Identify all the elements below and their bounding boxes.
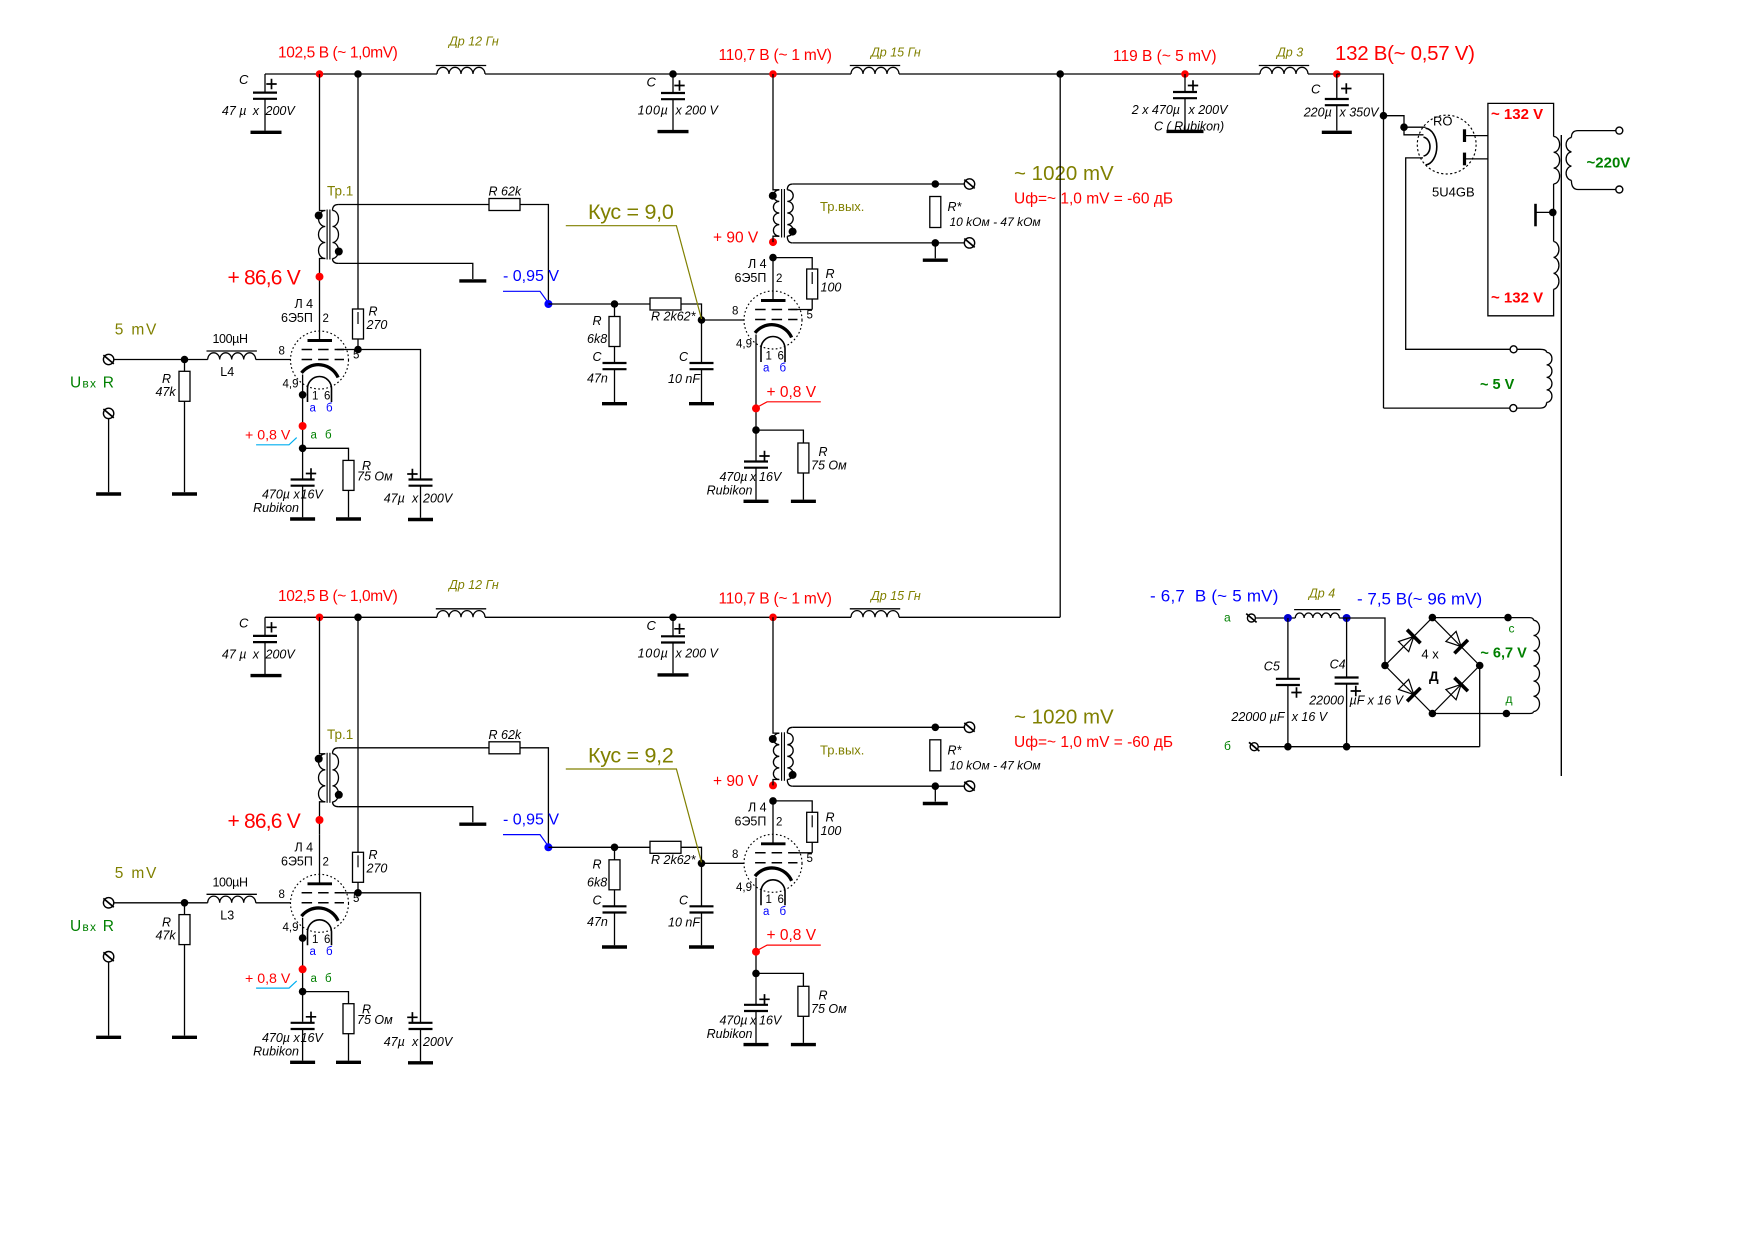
resistor R* load ch2 [930,740,941,771]
wire bridge right vertex to negative bus [1479,666,1481,747]
HV secondary winding box [1488,103,1554,315]
svg-text:б: б [326,403,333,415]
svg-text:~ 1020 mV: ~ 1020 mV [1014,162,1114,185]
transformer Tr.1 ch1 primary [320,74,326,211]
svg-text:R*: R* [948,200,963,214]
svg-text:+ 0,8 V: + 0,8 V [245,971,291,987]
svg-text:4,9: 4,9 [283,379,299,391]
node bus cap 100u ch1 [669,70,677,78]
svg-text:47k: 47k [156,385,177,399]
node R* top ch1 [932,180,940,188]
svg-text:1: 1 [312,934,318,946]
svg-text:x 200 V: x 200 V [675,647,720,661]
wire cathode to R75 V2 ch1 [756,430,803,443]
node grid V2 ch2 [698,860,706,868]
node R6k8 tap ch1 [611,300,619,308]
svg-text:Др 3: Др 3 [1275,46,1303,60]
svg-text:8: 8 [732,306,738,318]
svg-text:~ 1020 mV: ~ 1020 mV [1014,705,1114,728]
svg-text:Rubikon: Rubikon [253,501,299,515]
svg-text:б: б [780,906,787,918]
HV secondary winding lower half ~132V [1554,242,1559,290]
svg-text:470µ: 470µ [262,1031,290,1045]
svg-text:6k8: 6k8 [587,332,607,346]
svg-text:75 Ом: 75 Ом [357,1013,393,1027]
svg-text:220µ: 220µ [1303,106,1332,120]
rectifier RO filament arcs [1424,128,1437,165]
svg-text:б: б [325,973,332,985]
svg-text:x 200V: x 200V [1188,103,1230,117]
node pin 4,9 ch2 [299,934,307,942]
ground R75 V1 ch1 [336,517,361,520]
svg-text:д: д [1506,692,1513,706]
node C4 bottom [1343,743,1351,751]
ground input terminal 2 ch2 [96,1036,121,1039]
wire terminal a to Dr4 [1256,617,1296,619]
resistor R 75 Om V2 ch1 [798,443,809,473]
svg-text:47µ: 47µ [384,492,405,506]
choke Dr12 ch1 (Др 12 Гн) [437,67,485,74]
svg-text:~ 132 V: ~ 132 V [1491,290,1543,307]
triode-pentode tube V1-ch1 envelope [291,331,349,389]
wire bus to R270 ch1 [357,74,359,309]
ground cap 47n ch1 [602,402,627,405]
svg-text:+ 0,8 V: + 0,8 V [767,384,817,401]
bridge diode D2 (top-right edge) [1446,631,1461,646]
svg-text:4,9: 4,9 [283,922,299,934]
svg-text:+ 0,8 V: + 0,8 V [245,428,291,444]
ground R75 V2 ch2 [791,1043,816,1046]
transformer Tr.1 ch1 phase dot primary [315,212,323,220]
svg-text:470µ: 470µ [262,488,290,502]
svg-text:1: 1 [312,391,318,403]
svg-text:102,5 В (~ 1,0mV): 102,5 В (~ 1,0mV) [278,588,398,605]
wire R2k62 to grid node ch1 [681,304,702,320]
ground cap 220u [1322,131,1352,134]
terminal b filament [1250,743,1258,751]
node R6k8 tap ch2 [611,844,619,852]
resistor R 2k62 ch1 [650,298,681,310]
svg-text:270: 270 [366,861,388,875]
svg-text:5 mV: 5 mV [115,865,158,882]
tube V2-ch1 cathode [755,325,792,338]
svg-text:+ 90 V: + 90 V [713,773,759,790]
terminal 5V bottom [1510,405,1517,412]
node input-R47k ch1 [181,356,189,364]
svg-text:200V: 200V [422,492,454,506]
ground bus cap 100u ch2 [658,673,689,676]
transformer Tr.1 ch2 phase dot secondary [335,791,343,799]
wire Tr.1 secondary top to R62k ch2 [338,747,489,749]
transformer Tr.vyh ch1 secondary [787,184,793,190]
svg-text:R: R [819,988,828,1002]
6,3V filament winding [1530,618,1534,621]
wire -0,95V node to R2k62 ch2 [548,846,650,848]
svg-text:R 2k62*: R 2k62* [651,310,697,324]
wire -0,95V node to R2k62 ch1 [548,303,650,305]
triode-pentode tube V2-ch2 envelope [744,834,802,892]
svg-text:x: x [293,488,301,502]
wire RO anode bottom to HV winding bottom [1465,158,1488,160]
transformer Tr.vyh ch2 primary [773,617,779,733]
svg-text:~ 132 V: ~ 132 V [1491,106,1543,123]
node +86,6V ch2 [316,816,324,824]
svg-text:47µ: 47µ [384,1035,405,1049]
svg-text:Л 4: Л 4 [295,840,314,854]
wire pin5 tube V1 to cap ch2 [337,893,421,1023]
wire filament inner stub [1404,127,1424,135]
svg-text:16V: 16V [759,1013,783,1027]
svg-text:Тр.1: Тр.1 [327,184,353,199]
capacitor 2x470u/200V [1184,74,1186,92]
node C4 top [1343,614,1351,622]
tube V1-ch1 cathode [302,365,339,378]
svg-text:Др 4: Др 4 [1307,587,1335,601]
wire input terminal 2 to ground ch1 [108,419,110,493]
wire inductor to tube grid pin8 ch2 [256,902,291,904]
svg-text:200V: 200V [265,647,297,661]
ground cap 2x470u [1167,130,1204,133]
node +0,8V V1 ch1 [299,422,307,430]
output terminal top ch2 [964,722,974,732]
ground R47k ch1 [172,492,197,495]
svg-text:6Э5П: 6Э5П [735,814,767,828]
svg-text:Rubikon: Rubikon [707,484,753,498]
resistor R 6k8 ch2 [614,847,616,860]
choke Dr4 (Др 4) [1295,613,1339,618]
svg-text:2: 2 [323,313,329,325]
capacitor 220u/350V [1336,74,1338,99]
svg-text:6Э5П: 6Э5П [281,311,313,325]
ground input terminal 2 ch1 [96,492,121,495]
svg-text:100µH: 100µH [213,332,248,346]
tube V2-ch2 grid rows [755,853,797,863]
resistor R 2k62 ch2 [650,841,681,853]
svg-text:C: C [239,72,249,87]
svg-text:C: C [647,75,657,90]
svg-text:б: б [1224,739,1231,753]
terminal a filament [1247,614,1255,622]
ground R* ch1 [923,259,948,262]
node R* bottom ch1 [932,239,940,247]
wire cathode tube V2 ch1 [755,335,757,462]
capacitor C 100u/200V bus ch2 [672,617,674,636]
tube V2-ch1 anode [761,299,786,302]
svg-text:L3: L3 [220,908,234,922]
svg-text:75 Ом: 75 Ом [811,1002,847,1016]
node C5 bottom [1284,743,1292,751]
node pin5-R270 ch2 [354,889,362,897]
svg-text:Uф=~ 1,0 mV = -60 дБ: Uф=~ 1,0 mV = -60 дБ [1014,734,1173,751]
output terminal top ch1 [964,179,974,189]
ground cap 10nF ch2 [689,945,714,948]
svg-text:10 kОм - 47 kОм: 10 kОм - 47 kОм [950,758,1041,772]
svg-text:132 В(~ 0,57 V): 132 В(~ 0,57 V) [1335,42,1475,65]
resistor R 100 ch1 [773,258,812,269]
svg-text:100µ: 100µ [638,647,669,661]
capacitor C 47u/200V bus ch1 [264,74,266,93]
svg-text:2 x 470µ: 2 x 470µ [1131,103,1180,117]
transformer Tr.1 ch1 core [326,210,328,260]
wire RO filament bottom to 5V winding [1406,158,1510,349]
svg-text:x: x [411,1035,419,1049]
svg-text:C: C [593,893,603,907]
node bus-R270 ch1 [354,70,362,78]
svg-text:RO: RO [1433,114,1453,129]
resistor R 6k8 ch1 [614,304,616,317]
terminal ~220V top [1616,127,1623,134]
wire bridge top vertex to 6,3V winding [1432,617,1529,619]
svg-text:R: R [162,372,171,386]
resistor R 100 ch2 [773,801,812,812]
wire cathode tube V2 ch2 [755,878,757,1005]
svg-text:75 Ом: 75 Ом [357,470,393,484]
svg-text:б: б [326,946,333,958]
tie line bus ch1 to bus ch2 [1059,74,1061,617]
transformer Tr.vyh ch2 phase dot secondary [789,771,797,779]
svg-text:Др 12 Гн: Др 12 Гн [447,35,499,49]
ground R75 V1 ch2 [336,1061,361,1064]
bridge diode D1 (left-top edge) [1399,637,1414,652]
node winding bottom d [1503,710,1511,718]
svg-text:119 В (~ 5 mV): 119 В (~ 5 mV) [1113,48,1217,65]
svg-text:x 16 V: x 16 V [1291,710,1329,724]
node rectifier filament tap 1 [1380,112,1388,120]
ground cap 470u V1 ch2 [290,1061,315,1064]
svg-text:+ 90 V: + 90 V [713,230,759,247]
transformer Tr.1 ch2 primary [320,617,326,754]
capacitor 47u/200V cathode-side ch1 [409,478,433,480]
wire R62k to -0,95V node ch2 [520,748,548,848]
node cathode junction V2 ch1 [752,426,760,434]
svg-text:4,9: 4,9 [736,882,752,894]
wire cathode to R75 V2 ch2 [756,973,803,986]
svg-text:6k8: 6k8 [587,875,607,889]
ground cap 47n ch2 [602,945,627,948]
node bus cap 100u ch2 [669,614,677,622]
node bridge top vertex [1429,614,1437,622]
svg-text:100: 100 [821,281,842,295]
node cathode junction V1 ch1 [299,445,307,453]
svg-text:~ 6,7 V: ~ 6,7 V [1480,646,1527,662]
input terminal 1 ch2 [103,898,113,908]
svg-text:R: R [819,445,828,459]
ground bus cap 47u ch1 [251,131,282,134]
wire R62k to -0,95V node ch1 [520,205,548,305]
wire Tr.vyh secondary bottom ch1 [793,242,965,244]
svg-text:22000 µF: 22000 µF [1230,710,1285,724]
svg-text:6: 6 [778,894,784,906]
transformer Tr.vyh ch1 phase dot primary [769,192,777,200]
capacitor 47u/200V cathode-side ch2 [409,1022,433,1024]
wire R* bottom to ground ch1 [934,243,936,258]
tube V1-ch2 heater [308,920,332,945]
resistor R 62k ch2 [489,742,520,754]
wire RO anode top to HV winding top [1465,135,1488,137]
wire B+ bus ch1 right segment [899,73,1260,75]
capacitor C5 22000uF [1287,618,1289,679]
wire B+ bus ch2 left segment [265,616,437,618]
ground cap 470u V2 ch2 [744,1043,769,1046]
wire B+ bus ch2 middle segment [485,616,851,618]
bridge diode D4 (bottom-right edge) [1446,684,1461,699]
svg-text:10 nF: 10 nF [668,915,701,929]
svg-text:Rubikon: Rubikon [707,1027,753,1041]
capacitor 10nF ch2 [701,863,703,906]
resistor R 47k ch2 [184,903,186,915]
resistor R 62k ch1 [489,199,520,211]
wire bridge bottom vertex to 6,3V winding [1432,713,1529,715]
svg-text:8: 8 [732,849,738,861]
resistor R 270 ch2 [353,852,364,882]
tube V1-ch2 grid rows [302,893,344,903]
svg-text:6: 6 [324,391,330,403]
wire inductor to tube grid pin8 ch1 [256,359,291,361]
svg-text:c: c [1509,622,1515,636]
node -0,95V ch1 [544,300,552,308]
transformer Tr.1 ch2 secondary [333,748,339,754]
wire pin5 tube V2 ch1 [791,309,813,311]
node anode-R100 ch1 [769,254,777,262]
svg-text:x: x [252,104,260,118]
capacitor C 100u/200V bus ch1 [672,74,674,93]
svg-text:2: 2 [776,273,782,285]
ground R47k ch2 [172,1036,197,1039]
transformer Tr.vyh ch1 phase dot secondary [789,228,797,236]
capacitor 470u/16V V1 ch2 [291,1022,315,1024]
capacitor 47n ch1 [603,362,627,364]
svg-text:R: R [593,857,602,871]
svg-text:- 6,7 В (~ 5 mV): - 6,7 В (~ 5 mV) [1150,587,1279,606]
svg-text:22000: 22000 [1308,694,1344,708]
svg-text:~ 5 V: ~ 5 V [1480,377,1515,393]
tube V1-ch2 cathode [302,908,339,921]
wire B+ bus ch2 right segment to tie line [899,616,1060,618]
capacitor 10nF ch1 [701,320,703,363]
svg-text:C5: C5 [1264,660,1280,674]
node +90V ch2 [769,781,777,789]
node R* bottom ch2 [932,782,940,790]
svg-text:47k: 47k [156,928,177,942]
ground bus cap 47u ch2 [251,674,282,677]
svg-text:- 0,95 V: - 0,95 V [503,268,559,285]
svg-text:Др 12 Гн: Др 12 Гн [447,578,499,592]
svg-text:47 µ: 47 µ [222,104,247,118]
svg-text:4 x: 4 x [1421,647,1439,662]
tube V2-ch2 heater [761,880,785,906]
svg-text:а: а [310,946,317,958]
node 110,7V ch2 [769,614,777,622]
svg-text:R 62k: R 62k [489,728,522,742]
wire input to grid ch1 [114,359,208,361]
choke Dr15 ch2 (Др 15 Гн) [851,611,899,618]
wire B+ bus ch1 middle segment [485,73,851,75]
node -0,95V ch2 [544,843,552,851]
svg-text:6: 6 [778,351,784,363]
capacitor 470u/16V V2 ch2 [744,1004,768,1006]
node C5 top [1284,614,1292,622]
svg-text:2: 2 [323,856,329,868]
node rectifier filament tap 2 [1400,123,1408,131]
wire B+ line to 5V winding bottom [1384,407,1510,409]
transformer Tr.1 ch1 secondary [333,205,339,211]
resistor R 75 Om V1 ch2 [343,1004,354,1034]
svg-text:1: 1 [766,894,772,906]
ground R* ch2 [923,802,948,805]
svg-text:10 kОм - 47 kОм: 10 kОм - 47 kОм [950,215,1041,229]
svg-text:x: x [411,492,419,506]
node pin 4,9 ch1 [299,391,307,399]
diode bridge diamond [1385,618,1480,714]
svg-text:200V: 200V [265,104,297,118]
svg-text:C: C [647,618,657,633]
wire pin5 tube V2 ch2 [791,852,813,854]
svg-text:R: R [369,848,378,862]
node 110,7V ch1 [769,70,777,78]
svg-text:Л 4: Л 4 [295,297,314,311]
output terminal bottom ch2 [964,781,974,791]
wire anode tube V1 ch2 [319,834,321,884]
transformer Tr.vyh ch1 primary [773,74,779,190]
wire input to grid ch2 [114,902,208,904]
tube V1-ch1 grid rows [302,350,344,360]
5V filament winding [1517,349,1547,352]
capacitor 470u/16V V2 ch1 [744,460,768,462]
node +0,8V V2 ch2 [752,948,760,956]
transformer Tr.1 ch2 core [326,753,328,803]
wire Tr.vyh secondary top ch1 [793,183,965,185]
svg-text:102,5 В (~ 1,0mV): 102,5 В (~ 1,0mV) [278,45,398,62]
svg-text:R: R [369,305,378,319]
wire Tr.vyh secondary bottom ch2 [793,785,965,787]
wire B+ bus Dr3 to 132V node [1308,73,1337,75]
node bridge left vertex [1381,662,1389,670]
svg-text:10 nF: 10 nF [668,372,701,386]
wire grid node to tube V2 pin8 ch1 [702,319,745,321]
svg-text:200V: 200V [422,1035,454,1049]
svg-text:C: C [1311,82,1321,97]
svg-text:R: R [826,810,835,824]
svg-text:Др 15 Гн: Др 15 Гн [869,589,921,603]
svg-text:Uф=~ 1,0 mV = -60 дБ: Uф=~ 1,0 mV = -60 дБ [1014,191,1173,208]
svg-text:Тр.1: Тр.1 [327,727,353,742]
node 102,5V ch2 [316,614,324,622]
wire Dr4 to bridge left vertex [1339,618,1385,666]
terminal ~220V bottom [1616,186,1623,193]
svg-text:а: а [763,363,770,375]
svg-text:5: 5 [807,853,813,865]
svg-text:2: 2 [776,816,782,828]
ground cap 470u V2 ch1 [744,500,769,503]
capacitor C 47u/200V bus ch2 [264,617,266,636]
wire bus to R270 ch2 [357,617,359,852]
node bus-R270 ch2 [354,614,362,622]
wire cathode tube V1 ch1 [302,375,304,479]
svg-text:R: R [593,314,602,328]
svg-text:100: 100 [821,824,842,838]
capacitor 47n ch2 [603,905,627,907]
node cathode junction V2 ch2 [752,970,760,978]
svg-text:5: 5 [807,310,813,322]
input terminal 2 ch1 [103,408,113,418]
node winding top c [1504,614,1512,622]
svg-text:110,7 В (~ 1 mV): 110,7 В (~ 1 mV) [719,47,832,64]
node bridge bottom vertex [1429,710,1437,718]
svg-text:Rubikon: Rubikon [253,1045,299,1059]
node pin5-R270 ch1 [354,346,362,354]
svg-text:75 Ом: 75 Ом [811,459,847,473]
svg-text:Uвх R: Uвх R [70,918,115,935]
